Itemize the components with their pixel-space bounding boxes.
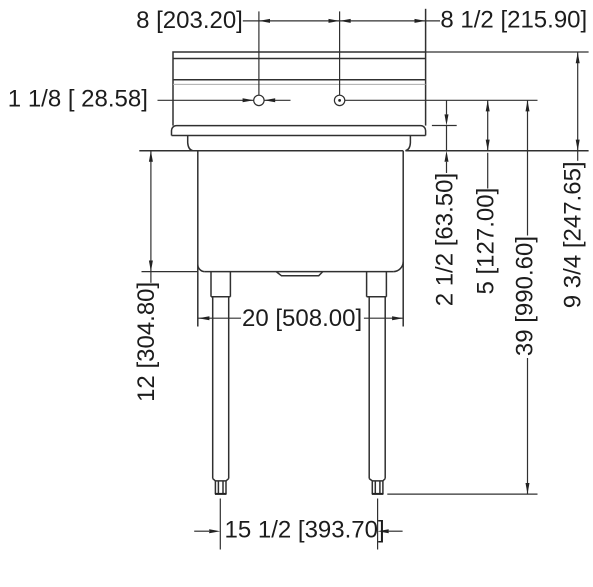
dimension 15 1/2 right arrow and shaft [389, 530, 403, 532]
dimension 39 arrow up [526, 100, 530, 111]
dimension 8 arrow left [259, 19, 270, 23]
svg-text:9 3/4 [247.65]: 9 3/4 [247.65] [560, 161, 587, 308]
right foot bottom [372, 493, 384, 495]
dimension 2 1/2 [63.50] upper shaft with down arrow [446, 100, 448, 114]
dimension 12 bottom extension segment [142, 271, 198, 273]
faucet hole 2 extension line up [339, 11, 341, 95]
dimension 20 [508.00] line left part [198, 317, 241, 319]
backsplash outline [173, 9, 426, 126]
dimension 9 3/4 arrow up [576, 52, 580, 63]
dimension 39 lower line [527, 358, 529, 494]
faucet hole 2 [334, 95, 344, 105]
faucet hole 1 [254, 95, 264, 105]
countertop rim bottom line [172, 135, 426, 137]
dimension 20 arrow right [392, 316, 403, 320]
svg-text:1 1/8 [ 28.58]: 1 1/8 [ 28.58] [8, 85, 148, 112]
right foot [372, 481, 383, 494]
bowl left edge with extension down [197, 151, 199, 327]
dimension 12 arrow up [149, 151, 153, 162]
svg-text:8 [203.20]: 8 [203.20] [136, 7, 243, 34]
dimension 5 arrow down [486, 140, 490, 151]
left cove under rim [188, 136, 193, 151]
dimension 9 3/4 arrow down [576, 140, 580, 151]
dimension 1 1/8 leader line to hole [158, 99, 254, 101]
right leg taper [369, 479, 385, 481]
countertop rim [172, 126, 426, 136]
dimension 8 [203.20] line [259, 20, 340, 22]
dimension 5 [127.00] line [487, 100, 489, 150]
dimension 8 1/2 [215.90] line [340, 20, 440, 22]
left leg taper [213, 479, 229, 481]
dimension 12 line [150, 151, 152, 272]
floor extension line right [387, 493, 537, 495]
svg-text:20 [508.00]: 20 [508.00] [242, 305, 362, 332]
svg-text:15 1/2 [393.70]: 15 1/2 [393.70] [225, 517, 385, 544]
dimension 12 arrow down [149, 261, 153, 272]
dimension 15 1/2 left extension line below foot [219, 499, 221, 550]
dimension 2 1/2 middle segment [446, 126, 448, 151]
bowl top line with left extension [139, 150, 403, 152]
right leg gusset [367, 272, 387, 297]
drain depression [276, 272, 323, 276]
rim top extension line right [432, 125, 457, 127]
dimension 8 1/2 arrow left [340, 19, 351, 23]
dimension 1 1/8 right-side arrow tail [264, 99, 290, 101]
left foot bottom [215, 493, 227, 495]
dimension 1 1/8 arrow left at hole right side [264, 98, 275, 102]
svg-text:39 [990.60]: 39 [990.60] [512, 236, 539, 356]
left foot [215, 481, 226, 494]
backsplash faint seam line [173, 83, 426, 85]
dimension 15 1/2 right extension line below foot [377, 499, 379, 550]
dimension 8 arrow right [329, 19, 340, 23]
svg-text:8 1/2 [215.90]: 8 1/2 [215.90] [440, 7, 587, 34]
bowl right edge with extension down [402, 151, 404, 327]
bowl bottom line [205, 271, 393, 273]
dimension 39 [990.60] upper line [527, 100, 529, 235]
dimension 9 3/4 [247.65] line [577, 52, 579, 151]
bowl bottom left corner [198, 265, 205, 272]
hole center leader line to right [345, 99, 538, 101]
dimension 5 lower stub [487, 153, 489, 189]
left leg gusset [211, 272, 230, 297]
dimension 20 line right part [364, 317, 403, 319]
dimension 15 1/2 left arrow and shaft [194, 530, 209, 532]
faucet hole 2 center dot [338, 99, 341, 102]
svg-text:12 [304.80]: 12 [304.80] [133, 282, 160, 402]
dimension 1 1/8 arrow right at hole [243, 98, 254, 102]
dimension 20 arrow left [198, 316, 209, 320]
bowl bottom right corner [393, 262, 403, 272]
right cove under rim [405, 136, 410, 151]
dimension 5 arrow up [486, 100, 490, 111]
svg-text:2 1/2 [63.50]: 2 1/2 [63.50] [432, 173, 459, 306]
dimension 9 3/4 text [577, 151, 579, 161]
dimension 8 1/2 arrow right [415, 19, 426, 23]
svg-text:5 [127.00]: 5 [127.00] [472, 188, 499, 295]
bowl top right extension line [405, 150, 588, 152]
dimension 39 arrow down [526, 483, 530, 494]
backsplash roll line 2 [173, 79, 426, 81]
backsplash top right extension line [426, 51, 589, 53]
dimension 2 1/2 lower up-arrow and shaft [445, 151, 449, 162]
backsplash roll line 1 [173, 58, 426, 60]
dimension 12 text [150, 272, 152, 283]
faucet hole 1 extension line up [258, 11, 260, 95]
right leg [369, 297, 385, 479]
left leg [213, 297, 229, 479]
dimension 8 [203.20] leader from text [243, 20, 259, 22]
